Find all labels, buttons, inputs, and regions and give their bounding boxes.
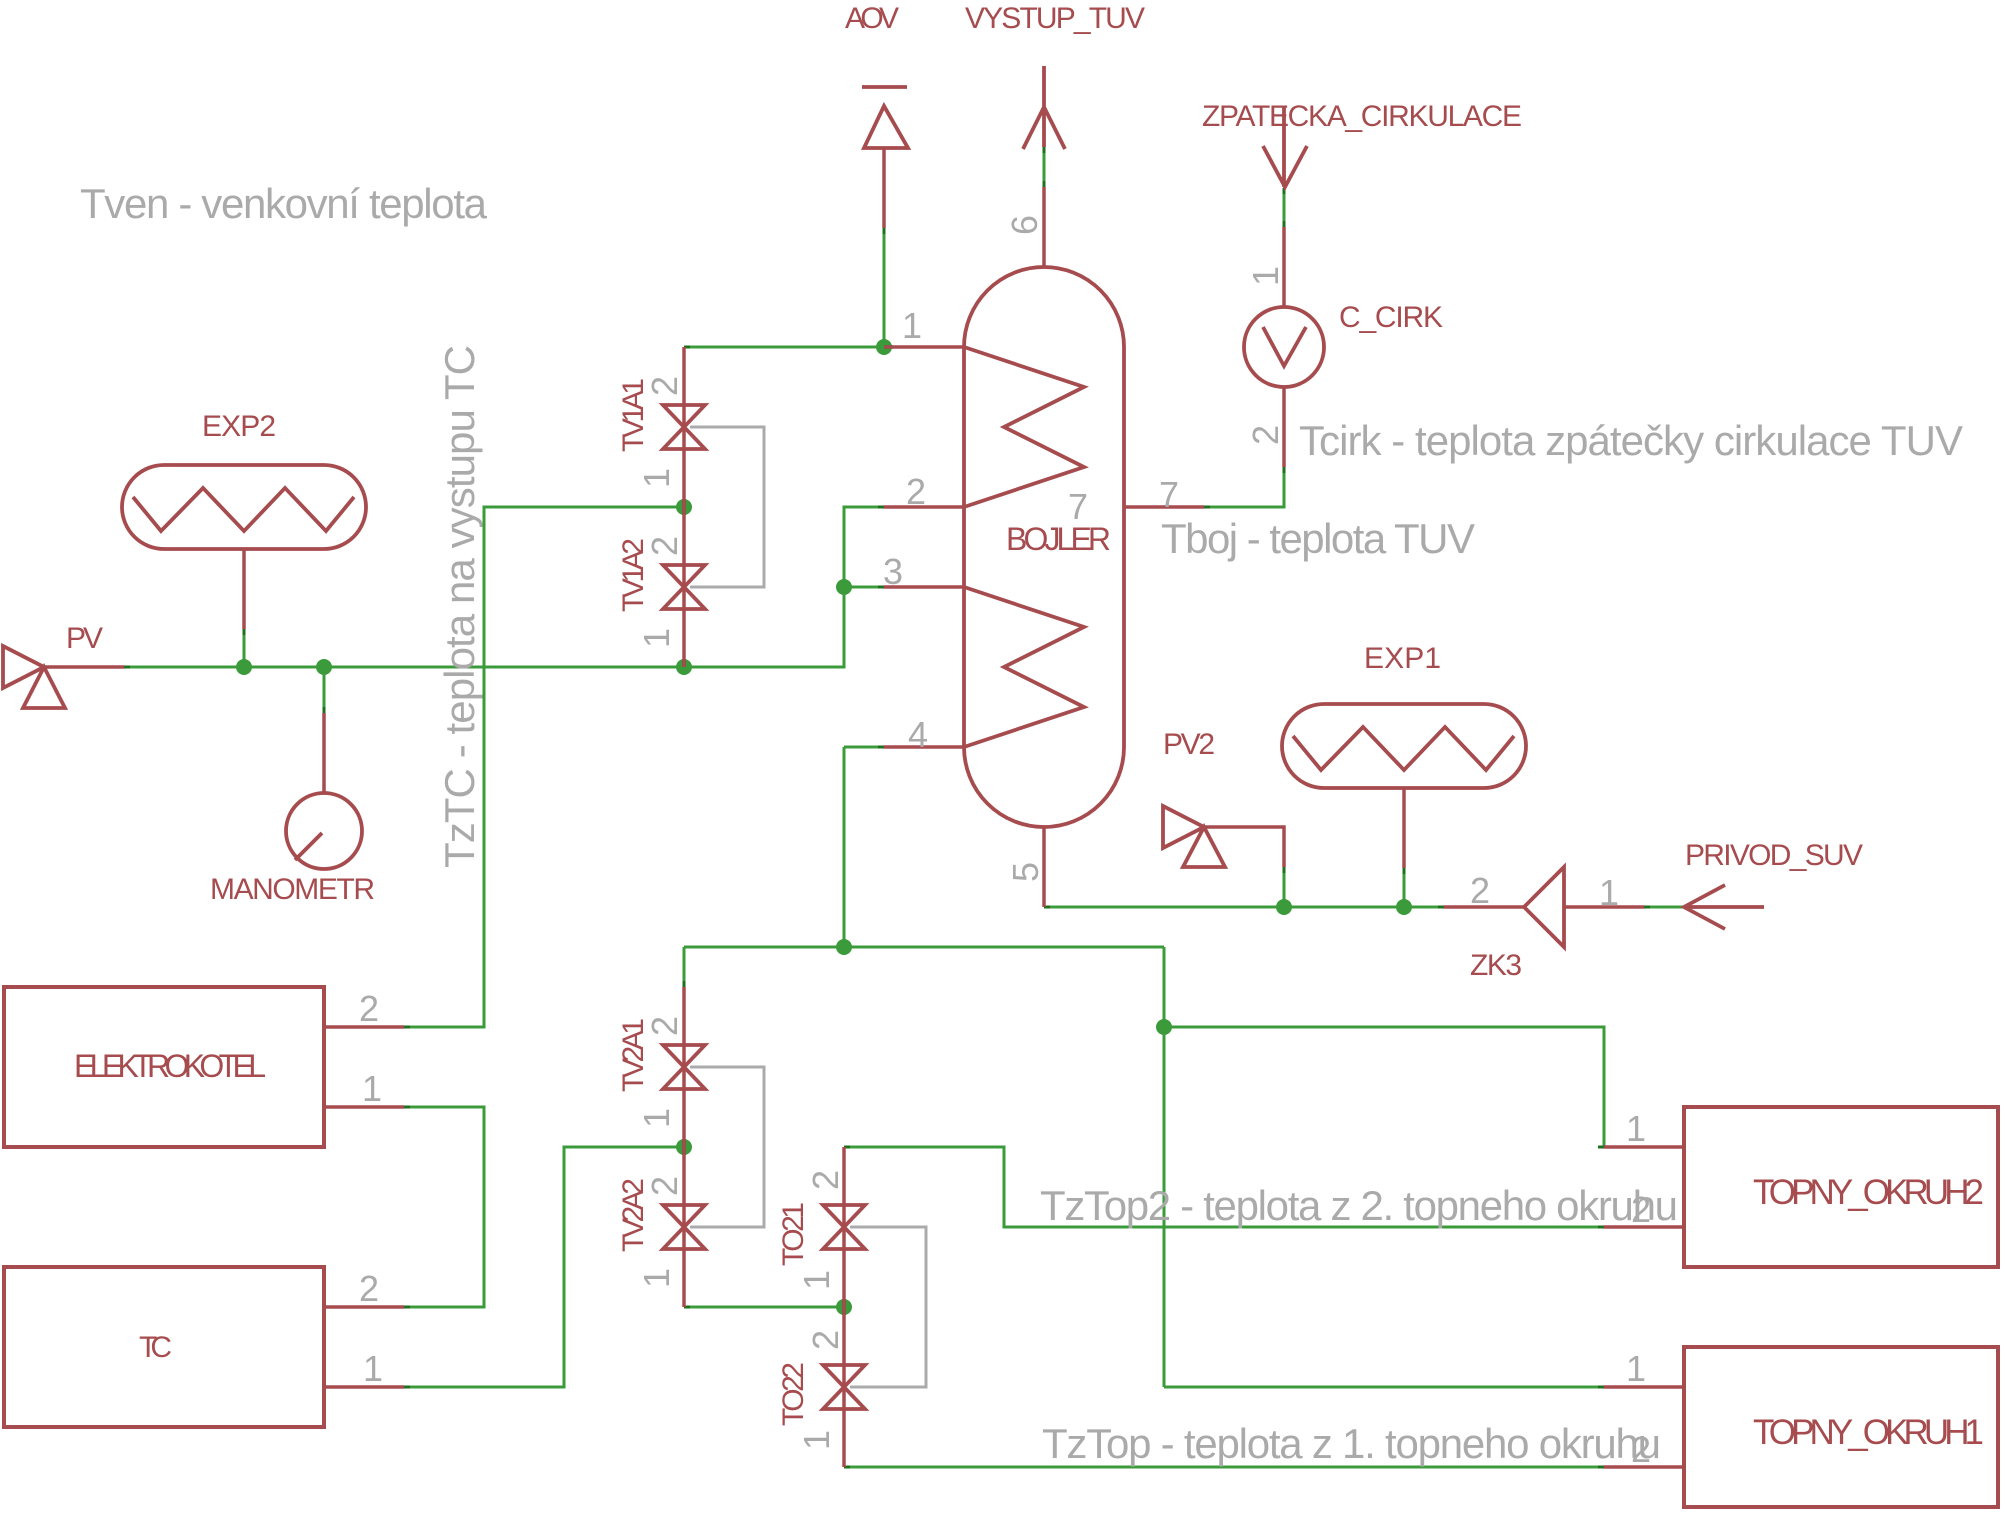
expansion vessel EXP1 body (1282, 704, 1526, 788)
wire boiler pin4 down (844, 746, 884, 749)
expansion vessel EXP2 body (122, 465, 366, 549)
svg-text:TO22: TO22 (777, 1362, 810, 1426)
svg-text:1: 1 (636, 1108, 677, 1128)
pump C_CIRK circle (1244, 307, 1324, 387)
svg-text:ZPATECKA_CIRKULACE: ZPATECKA_CIRKULACE (1202, 100, 1522, 133)
svg-text:EXP2: EXP2 (202, 410, 276, 443)
wire VYSTUP_TUV to boiler pin6 (1043, 147, 1046, 187)
junction TO2 node (836, 1299, 852, 1315)
wire C_CIRK pin2 to boiler pin7 (1204, 467, 1284, 507)
wire MANOMETR drop (323, 667, 326, 713)
svg-text:1: 1 (636, 1268, 677, 1288)
expansion vessel EXP2 heating coil (133, 488, 354, 531)
safety valve PV2 triangle left (1163, 806, 1204, 848)
vent AOV bar (862, 85, 907, 89)
vessel BOJLER upper coil (964, 347, 1084, 507)
svg-text:2: 2 (644, 376, 685, 396)
svg-text:2: 2 (644, 536, 685, 556)
safety valve PV2 triangle bottom (1183, 827, 1225, 867)
pin ZK3 2 (1444, 905, 1524, 909)
svg-text:TzTop - teplota z 1. topneho o: TzTop - teplota z 1. topneho okruhu (1042, 1420, 1661, 1467)
junction TV1A2 pin1 (676, 659, 692, 675)
svg-text:1: 1 (796, 1270, 837, 1290)
svg-text:ELEKTROKOTEL: ELEKTROKOTEL (74, 1048, 266, 1084)
wire to TOPNY_OKRUH1 pin1 (1164, 1386, 1604, 1389)
valve TV2A1 bowtie (663, 1045, 705, 1067)
svg-text:1: 1 (1626, 1348, 1646, 1389)
valve TV2A2 bowtie (663, 1205, 705, 1227)
svg-text:2: 2 (805, 1170, 846, 1190)
junction pin stubs dark (684, 347, 893, 1315)
svg-text:3: 3 (883, 551, 903, 592)
svg-text:TOPNY_OKRUH1: TOPNY_OKRUH1 (1753, 1413, 1984, 1452)
vessel BOJLER body (964, 267, 1124, 827)
pin BOJLER 5 (1042, 827, 1046, 907)
wire EXP1 drop (1403, 868, 1406, 907)
valve TV1A1 bowtie (663, 405, 705, 427)
vent AOV triangle (864, 106, 908, 148)
svg-text:ZK3: ZK3 (1470, 949, 1522, 982)
pin column TV2A1-TV2A2 (682, 987, 686, 1307)
svg-text:1: 1 (1626, 1108, 1646, 1149)
link TV2A1-TV2A2 coupling (690, 1067, 764, 1227)
pin column TV1A1-TV1A2 (682, 347, 686, 667)
wire ZPATECKA to C_CIRK pin1 (1283, 188, 1286, 227)
arrow ZPATECKA_CIRKULACE (1263, 107, 1307, 187)
pin TOPNY_OKRUH1 1 (1604, 1385, 1684, 1389)
box TOPNY_OKRUH2 (1684, 1107, 1998, 1267)
svg-text:Tcirk - teplota zpátečky cirku: Tcirk - teplota zpátečky cirkulace TUV (1299, 417, 1963, 464)
pin TC 1 (324, 1385, 404, 1389)
wire TO21 pin2 to TOPNY_OKRUH2 pin2 TzTop2 line (844, 1147, 1604, 1227)
svg-text:2: 2 (805, 1330, 846, 1350)
junction pin4 trunk (836, 939, 852, 955)
junction MANOMETR tap (316, 659, 332, 675)
svg-text:2: 2 (359, 988, 379, 1029)
junction EXP2 tap (236, 659, 252, 675)
svg-text:1: 1 (362, 1068, 382, 1109)
pin AOV stem (882, 148, 886, 228)
svg-text:VYSTUP_TUV: VYSTUP_TUV (965, 2, 1145, 35)
junction TV2 node (676, 1139, 692, 1155)
wire trunk horizontal y947 (684, 946, 1164, 949)
wire branch to TOPNY_OKRUH2 pin1 (1164, 1027, 1604, 1147)
wire TO22 pin1 to TOPNY_OKRUH1 pin2 TzTop line (844, 1466, 1604, 1469)
link TO21-TO22 coupling (850, 1227, 926, 1387)
pin ELEKTROKOTEL 1 (324, 1105, 404, 1109)
svg-text:TzTop2 - teplota z 2. topneho: TzTop2 - teplota z 2. topneho okruhu (1040, 1182, 1678, 1229)
wire TV2A2 pin1 to TO2 column (684, 1306, 844, 1309)
pin BOJLER 3 (884, 585, 964, 589)
pin PV out (44, 665, 124, 669)
svg-text:PRIVOD_SUV: PRIVOD_SUV (1685, 839, 1863, 872)
check valve ZK3 triangle (1524, 867, 1564, 947)
svg-text:4: 4 (908, 714, 928, 755)
pin TC 2 (324, 1305, 404, 1309)
box TC (4, 1267, 324, 1427)
svg-text:AOV: AOV (845, 2, 899, 35)
svg-text:TO21: TO21 (777, 1202, 810, 1266)
safety valve PV triangle left (3, 646, 44, 688)
wire EXP2 drop (243, 629, 246, 667)
svg-text:PV2: PV2 (1163, 728, 1215, 761)
wire boiler pin5 horizontal SUV line (1044, 906, 1444, 909)
svg-text:TC: TC (139, 1331, 172, 1364)
box TOPNY_OKRUH1 (1684, 1347, 1998, 1507)
pin BOJLER 6 (1042, 187, 1046, 267)
svg-text:1: 1 (636, 468, 677, 488)
svg-text:1: 1 (902, 305, 922, 346)
svg-text:2: 2 (359, 1268, 379, 1309)
junction EXP1 tap (1396, 899, 1412, 915)
svg-text:TOPNY_OKRUH2: TOPNY_OKRUH2 (1753, 1173, 1984, 1212)
svg-text:MANOMETR: MANOMETR (210, 873, 375, 906)
gauge MANOMETR needle (295, 833, 322, 860)
box ELEKTROKOTEL (4, 987, 324, 1147)
safety valve PV triangle bottom (23, 667, 65, 708)
pin PV2 elbow (1204, 827, 1284, 867)
pin MANOMETR stem (322, 713, 326, 793)
wire AOV vertical (883, 228, 886, 347)
pin BOJLER 2 (884, 505, 964, 509)
junction AOV boiler pin1 (876, 339, 892, 355)
wire ZK3 pin1 to PRIVOD_SUV arrow (1644, 906, 1684, 909)
pin BOJLER 7 (1124, 505, 1204, 509)
svg-text:1: 1 (1245, 266, 1286, 286)
valve TO21 bowtie (823, 1205, 865, 1227)
svg-text:C_CIRK: C_CIRK (1339, 301, 1443, 334)
arrow VYSTUP_TUV (1023, 66, 1065, 149)
svg-text:1: 1 (636, 628, 677, 648)
wire branch pin3 (844, 586, 884, 589)
pin BOJLER 4 (884, 745, 964, 749)
pin column TO21-TO22 (842, 1147, 846, 1467)
pin EXP1 stem (1402, 788, 1406, 868)
svg-text:2: 2 (644, 1176, 685, 1196)
wire trunk vertical x1164 (1163, 947, 1166, 1387)
svg-text:TzTC - teplota na vystupu TC: TzTC - teplota na vystupu TC (436, 345, 483, 868)
junction TOPNY_OKRUH2 branch (1156, 1019, 1172, 1035)
wire ELEKTROKOTEL pin1 to TC pin2 (404, 1107, 484, 1307)
wire net N$1 main horizontal PV line (124, 507, 884, 667)
link TV1A1-TV1A2 coupling (690, 427, 764, 587)
svg-text:1: 1 (796, 1430, 837, 1450)
pump C_CIRK V mark (1263, 327, 1306, 366)
svg-text:BOJLER: BOJLER (1006, 521, 1111, 557)
wire TC pin1 to TV2 node (404, 1147, 684, 1387)
wire pin4 vertical to trunk (843, 747, 846, 947)
valve TV1A2 bowtie (663, 565, 705, 587)
svg-text:1: 1 (1599, 872, 1619, 913)
wire PV2 drop (1283, 867, 1286, 907)
pin-end tick marks (124, 147, 1650, 1467)
pin C_CIRK 2 (1282, 387, 1286, 467)
pin TOPNY_OKRUH2 2 (1604, 1225, 1684, 1229)
svg-text:EXP1: EXP1 (1364, 642, 1441, 675)
pin EXP2 stem (242, 549, 246, 629)
svg-text:PV: PV (66, 622, 103, 655)
svg-text:6: 6 (1004, 215, 1045, 235)
pin ELEKTROKOTEL 2 (324, 1025, 404, 1029)
gauge MANOMETR circle (286, 793, 362, 869)
pin ZK3 1 (1564, 905, 1644, 909)
junction PV2 tap (1276, 899, 1292, 915)
valve TO22 bowtie (823, 1365, 865, 1387)
svg-text:2: 2 (906, 471, 926, 512)
svg-text:2: 2 (1631, 1429, 1651, 1470)
expansion vessel EXP1 heating coil (1293, 727, 1514, 770)
wire trunk down to TV2A1 pin2 (683, 947, 686, 987)
junction boiler pin3 branch (836, 579, 852, 595)
pin BOJLER 1 (884, 345, 964, 349)
svg-text:2: 2 (1470, 870, 1490, 911)
svg-text:5: 5 (1005, 862, 1046, 882)
junction TV1A1 pin1 node (676, 499, 692, 515)
svg-text:7: 7 (1159, 474, 1179, 515)
svg-text:2: 2 (1245, 425, 1286, 445)
arrow PRIVOD_SUV (1684, 885, 1764, 929)
wire TzTC vertical ELEKTROKOTEL pin2 to TV1 node (404, 507, 684, 1027)
pin C_CIRK 1 (1282, 227, 1286, 307)
svg-text:2: 2 (1631, 1189, 1651, 1230)
svg-text:1: 1 (363, 1348, 383, 1389)
pin TOPNY_OKRUH2 1 (1604, 1145, 1684, 1149)
svg-text:Tboj - teplota TUV: Tboj - teplota TUV (1161, 515, 1475, 562)
vessel BOJLER lower coil (964, 587, 1084, 747)
pin TOPNY_OKRUH1 2 (1604, 1465, 1684, 1469)
svg-text:Tven - venkovní teplota: Tven - venkovní teplota (80, 180, 488, 227)
svg-text:2: 2 (644, 1016, 685, 1036)
wire AOV node to boiler pin1 (684, 346, 884, 349)
svg-text:7: 7 (1068, 486, 1088, 527)
